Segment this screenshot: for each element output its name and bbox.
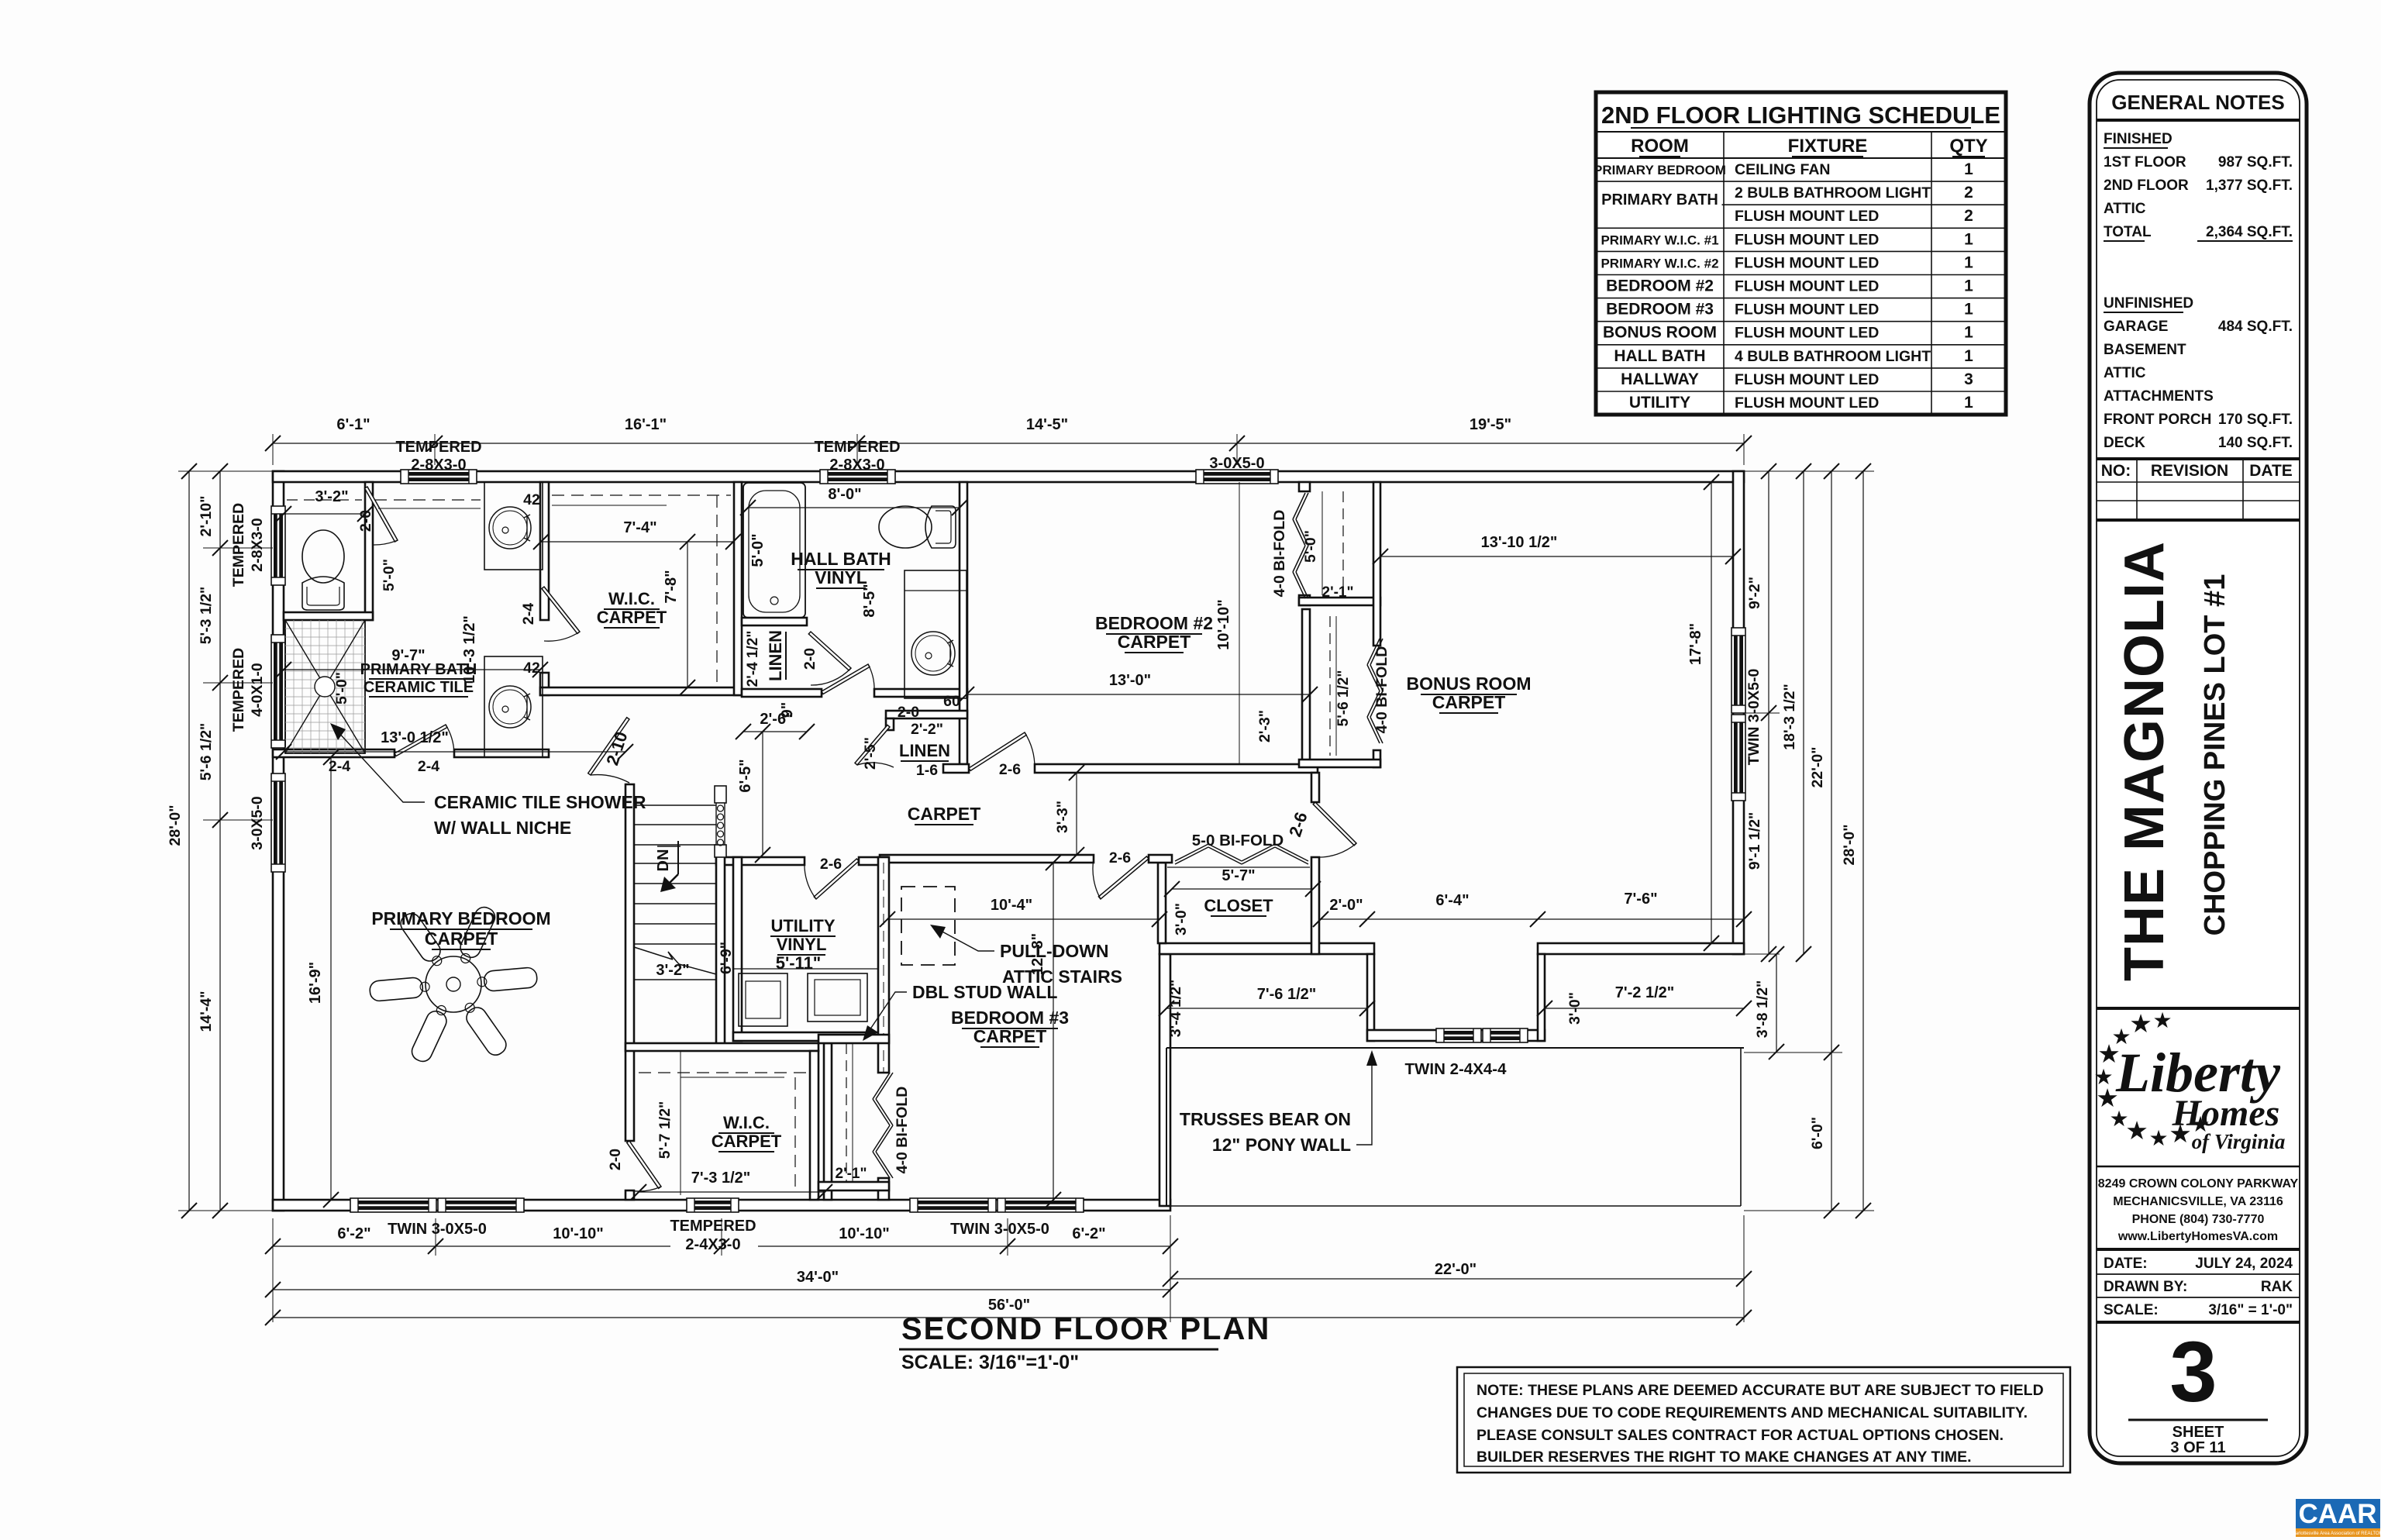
svg-text:TEMPERED: TEMPERED (395, 439, 481, 456)
label 6-9 utility (718, 942, 735, 974)
wall utility west (733, 857, 742, 1041)
label 7-8 wic (663, 534, 695, 695)
svg-text:LINEN: LINEN (899, 741, 950, 760)
bay lower dims 7-6half 7-2half (1159, 984, 1752, 1016)
left dimension string inner (198, 463, 273, 1218)
svg-text:5'-7 1/2": 5'-7 1/2" (656, 1101, 674, 1159)
label 8-0 hall bath (740, 486, 967, 515)
window twin 2-4x4-4 bay (1436, 1028, 1528, 1042)
svg-text:CHOPPING PINES LOT #1: CHOPPING PINES LOT #1 (2199, 574, 2231, 936)
svg-text:MECHANICSVILLE, VA 23116: MECHANICSVILLE, VA 23116 (2113, 1195, 2283, 1208)
drawn by row (2097, 1274, 2300, 1295)
closet rod closetA (1322, 491, 1343, 595)
label pull-down attic stairs (930, 925, 1122, 987)
svg-text:CEILING FAN: CEILING FAN (1735, 161, 1831, 178)
general notes unfinished list (2104, 295, 2293, 451)
label 7-3half wic2 (631, 1170, 832, 1200)
wall primary bath south (left segment) (273, 749, 395, 757)
svg-text:7'-6 1/2": 7'-6 1/2" (1257, 986, 1317, 1003)
wall exterior-top (273, 471, 1744, 482)
label 2-6 bedroom2 door (999, 761, 1021, 778)
date row (2097, 1249, 2300, 1272)
svg-text:1: 1 (1964, 301, 1973, 319)
svg-text:2-4: 2-4 (418, 758, 439, 775)
svg-text:12'-8": 12'-8" (1029, 933, 1046, 975)
svg-text:FLUSH MOUNT LED: FLUSH MOUNT LED (1735, 278, 1879, 295)
svg-text:★: ★ (2148, 1126, 2168, 1150)
liberty homes logo (2093, 1008, 2300, 1153)
window label 3-0x5-0 left (249, 796, 266, 850)
window tempered 2-8x3-0 top-middle (820, 470, 895, 484)
svg-text:2'-0": 2'-0" (1329, 897, 1363, 914)
label 5-0 wc (381, 559, 398, 591)
wall exterior-right bonus room (1733, 471, 1744, 954)
window label tempered 4-0x1-0 left (230, 648, 266, 732)
door 2-4 primary bath to bedroom (395, 725, 454, 756)
svg-text:CARPET: CARPET (712, 1132, 782, 1151)
stair railing (715, 786, 726, 857)
wall bonus-room south (left of bay) (1159, 943, 1374, 954)
svg-text:56'-0": 56'-0" (988, 1297, 1030, 1314)
svg-text:4-0X1-0: 4-0X1-0 (249, 663, 266, 717)
label 2-6 utility door (820, 856, 842, 873)
bay dimension string 2-0 6-4 7-6 (1313, 891, 1752, 927)
wall wic2 north (625, 1043, 818, 1051)
svg-text:2-0: 2-0 (607, 1149, 624, 1170)
wall exterior-bottom main (273, 1200, 1170, 1211)
wall W.C. room south (284, 612, 373, 620)
svg-text:6'-4": 6'-4" (1435, 892, 1469, 909)
svg-text:3/16" = 1'-0": 3/16" = 1'-0" (2208, 1302, 2293, 1318)
label ceramic tile shower note (330, 723, 646, 838)
vanity 42 primary bath lower (484, 656, 543, 757)
svg-text:PHONE (804) 730-7770: PHONE (804) 730-7770 (2132, 1213, 2265, 1226)
svg-text:7'-6": 7'-6" (1624, 891, 1657, 908)
svg-text:2-8X3-0: 2-8X3-0 (411, 456, 466, 474)
svg-text:3: 3 (1964, 370, 1973, 388)
bifold 4-0 closetA bedroom2 (1293, 493, 1308, 598)
svg-text:PRIMARY BATH: PRIMARY BATH (1601, 191, 1718, 208)
svg-text:60: 60 (943, 693, 960, 710)
svg-text:5-0 BI-FOLD: 5-0 BI-FOLD (1192, 832, 1284, 849)
svg-text:PULL-DOWN: PULL-DOWN (1000, 941, 1109, 961)
label 10-3half primary bath (461, 615, 478, 684)
ceiling fan primary bedroom (369, 904, 537, 1065)
svg-text:17'-8": 17'-8" (1687, 623, 1704, 665)
svg-text:of Virginia: of Virginia (2192, 1130, 2286, 1153)
shower ceramic tile primary bath (285, 620, 365, 753)
label 2-4 bath door (418, 758, 439, 775)
wall bay window sill (1367, 1030, 1545, 1041)
svg-text:7'-3 1/2": 7'-3 1/2" (691, 1170, 751, 1187)
sheet number (2128, 1325, 2268, 1456)
label 12-8 bedroom3 (1029, 855, 1061, 1208)
label 9-7 primary bath (276, 647, 548, 677)
label 2-1 bedroom3 closet (836, 1166, 867, 1182)
label 2-5 linen2 (862, 737, 879, 770)
room label linen1 (766, 630, 786, 681)
label 2-6 bedroom3 door (1109, 849, 1131, 866)
general notes finished list (2104, 131, 2293, 241)
svg-text:5'-6 1/2": 5'-6 1/2" (198, 723, 215, 781)
window 3-0x5-0 top-right (1196, 470, 1278, 484)
svg-text:FRONT PORCH: FRONT PORCH (2104, 412, 2211, 428)
wall primary bath / wic vanity wall lower (540, 673, 549, 695)
svg-text:ATTIC: ATTIC (2104, 365, 2146, 381)
svg-text:CERAMIC TILE: CERAMIC TILE (364, 679, 474, 696)
svg-text:TWIN 3-0X5-0: TWIN 3-0X5-0 (950, 1221, 1049, 1238)
svg-text:TEMPERED: TEMPERED (670, 1218, 756, 1235)
toilet hall bath (879, 506, 956, 548)
vanity 60 hall bath (905, 570, 967, 698)
svg-text:2'-2": 2'-2" (911, 721, 943, 738)
svg-text:SCALE: 3/16"=1'-0": SCALE: 3/16"=1'-0" (901, 1352, 1079, 1373)
svg-text:PLEASE CONSULT SALES CONTRACT: PLEASE CONSULT SALES CONTRACT FOR ACTUAL… (1476, 1427, 2004, 1444)
wall closetB south (1299, 760, 1380, 767)
svg-text:2-6: 2-6 (999, 761, 1021, 778)
svg-text:10'-10": 10'-10" (839, 1225, 889, 1242)
door 2-6 bedroom2 (969, 732, 1035, 770)
label 1-6 linen2 (916, 762, 938, 779)
svg-text:PRIMARY W.I.C. #2: PRIMARY W.I.C. #2 (1601, 256, 1718, 270)
svg-text:DBL STUD WALL: DBL STUD WALL (912, 982, 1057, 1002)
svg-text:4 BULB BATHROOM LIGHT: 4 BULB BATHROOM LIGHT (1735, 348, 1931, 365)
wall bedroom3 north (880, 855, 1094, 863)
svg-text:2-0: 2-0 (898, 704, 919, 721)
room label wic2 (712, 1113, 782, 1152)
label 2-1 closetA (1322, 584, 1354, 601)
label 4-0 bifold closetA (1271, 510, 1288, 598)
window twin 3-0x5-0 bottom primary bedroom (350, 1198, 524, 1212)
top dimension string (265, 416, 1752, 465)
svg-text:ATTIC: ATTIC (2104, 201, 2146, 217)
label 10-10 bedroom2 (1215, 599, 1232, 649)
2nd floor lighting schedule table (1594, 92, 2006, 415)
wall utility north west segment (716, 857, 805, 865)
closet rod wc dashed (287, 499, 362, 501)
room label primary bedroom (371, 908, 550, 949)
svg-text:4-0 BI-FOLD: 4-0 BI-FOLD (1373, 646, 1390, 734)
wall utility north east stub (859, 857, 887, 865)
svg-text:2-6: 2-6 (1109, 849, 1131, 866)
svg-text:DATE:: DATE: (2104, 1256, 2148, 1272)
svg-text:22'-0": 22'-0" (1435, 1261, 1476, 1278)
room label bedroom3 (951, 1008, 1069, 1047)
door 2-0 hall bath (822, 664, 874, 694)
label 42 lower vanity (523, 660, 540, 677)
svg-text:4-0 BI-FOLD: 4-0 BI-FOLD (1271, 510, 1288, 598)
svg-text:★: ★ (2125, 1116, 2148, 1145)
svg-text:2: 2 (1964, 207, 1973, 225)
svg-text:2ND FLOOR: 2ND FLOOR (2104, 177, 2189, 194)
closet rod wic2 (639, 1051, 810, 1195)
window label twin 3-0x5-0 bottom-right (950, 1221, 1049, 1238)
toilet wc (302, 530, 344, 610)
project name the magnolia (2114, 541, 2176, 981)
svg-text:6'-1": 6'-1" (336, 416, 370, 433)
svg-text:3'-8 1/2": 3'-8 1/2" (1754, 980, 1771, 1039)
svg-text:W.I.C.: W.I.C. (723, 1113, 770, 1132)
room label bonus room (1407, 674, 1532, 713)
svg-text:2-8X3-0: 2-8X3-0 (829, 456, 884, 474)
wall dbl-stud utility/bedroom3 upper (878, 857, 889, 1073)
address block (2097, 1166, 2300, 1243)
bottom dimension 56-0 (265, 1218, 1752, 1325)
label 2-3 closet stub (1256, 710, 1273, 742)
svg-text:Homes: Homes (2172, 1093, 2280, 1134)
svg-text:DECK: DECK (2104, 435, 2145, 451)
bottom dimension 22-0 (1163, 1215, 1752, 1322)
door 2-4 wic1 (542, 587, 580, 641)
room label hall bath (791, 549, 891, 588)
svg-text:6'-2": 6'-2" (1072, 1225, 1105, 1242)
caar logo (2290, 1499, 2381, 1537)
general notes header (2097, 91, 2300, 120)
svg-text:7'-8": 7'-8" (663, 570, 680, 603)
svg-text:2-4: 2-4 (329, 758, 350, 775)
svg-text:3-0X5-0: 3-0X5-0 (1209, 455, 1264, 472)
svg-text:TRUSSES BEAR ON: TRUSSES BEAR ON (1180, 1109, 1351, 1129)
label trusses bear on pony wall (1180, 1050, 1377, 1155)
svg-text:13'-0 1/2": 13'-0 1/2" (381, 729, 449, 746)
label 2-2 linen2 (911, 721, 943, 738)
svg-text:FLUSH MOUNT LED: FLUSH MOUNT LED (1735, 371, 1879, 388)
wall dbl-stud below closet opening (878, 1178, 889, 1200)
svg-text:2: 2 (1964, 184, 1973, 202)
label 4-0 bifold closetB (1373, 646, 1390, 734)
svg-text:TEMPERED: TEMPERED (814, 439, 900, 456)
svg-text:8'-0": 8'-0" (828, 486, 861, 503)
door 2-6 bonus room (1313, 802, 1356, 857)
label 5-0 closetA (1302, 530, 1319, 563)
svg-text:ATTACHMENTS: ATTACHMENTS (2104, 388, 2214, 405)
svg-text:5'-0": 5'-0" (381, 559, 398, 591)
wall hall-bath south west stub (742, 689, 822, 697)
svg-text:14'-4": 14'-4" (198, 991, 215, 1032)
wall bay window left jog (1367, 954, 1374, 1041)
label 16-9 primary bedroom (307, 749, 339, 1208)
svg-text:TEMPERED: TEMPERED (230, 648, 247, 732)
svg-text:TWIN 2-4X4-4: TWIN 2-4X4-4 (1405, 1060, 1508, 1078)
wall W.C. room east (365, 482, 373, 620)
wall stair west / primary bedroom east (625, 784, 634, 1141)
svg-text:HALLWAY: HALLWAY (1621, 370, 1699, 388)
window label tempered 2-8x3-0 top-left (395, 439, 481, 474)
window tempered 2-4x3-0 bottom wic2 (687, 1198, 739, 1212)
svg-text:★: ★ (2152, 1008, 2172, 1032)
svg-text:42: 42 (523, 491, 540, 508)
svg-text:6'-0": 6'-0" (1809, 1117, 1826, 1149)
svg-text:2'-1": 2'-1" (836, 1166, 867, 1182)
svg-text:9'-2": 9'-2" (1746, 577, 1763, 609)
svg-text:16'-9": 16'-9" (307, 962, 324, 1004)
label 3-0 hall closet (1173, 903, 1190, 935)
label 13-0 bedroom2 (959, 672, 1318, 702)
svg-text:GARAGE: GARAGE (2104, 319, 2168, 335)
window label tempered 2-4x3-0 bottom (670, 1218, 756, 1253)
svg-text:16'-1": 16'-1" (625, 416, 667, 433)
wall stair west below wic2 door (625, 1190, 634, 1200)
svg-text:6'-9": 6'-9" (718, 942, 735, 974)
wall hall closet west (1158, 863, 1166, 943)
svg-text:TWIN 3-0X5-0: TWIN 3-0X5-0 (388, 1221, 487, 1238)
svg-text:HALL BATH: HALL BATH (791, 549, 891, 569)
wall bonus-room south (right of bay) (1538, 943, 1744, 954)
svg-text:7'-4": 7'-4" (623, 519, 656, 536)
svg-text:2,364 SQ.FT.: 2,364 SQ.FT. (2206, 224, 2293, 240)
svg-text:★: ★ (2129, 1009, 2152, 1038)
svg-text:CHANGES DUE TO CODE REQUIREMEN: CHANGES DUE TO CODE REQUIREMENTS AND MEC… (1476, 1404, 2028, 1421)
label 5-0 tub (749, 533, 767, 567)
svg-text:UNFINISHED: UNFINISHED (2104, 295, 2193, 312)
wall closetA west jamb bottom (1299, 595, 1310, 605)
wall primary bath / wic vanity wall upper (540, 482, 549, 620)
svg-text:CAAR: CAAR (2298, 1499, 2376, 1529)
svg-text:3'-4 1/2": 3'-4 1/2" (1167, 980, 1184, 1038)
right dimension 22-0 and 6-0 (1744, 463, 1842, 1218)
svg-text:BASEMENT: BASEMENT (2104, 342, 2186, 358)
room label bedroom2 (1095, 613, 1213, 653)
svg-text:CARPET: CARPET (1118, 632, 1191, 652)
label 3-2 stairs (634, 959, 716, 979)
window twin 3-0x5-0 bottom bedroom3 (910, 1198, 1084, 1212)
wall primary bath south (right segment) (454, 749, 549, 757)
svg-text:1: 1 (1964, 160, 1973, 178)
label 9in wall (779, 702, 796, 718)
svg-text:PRIMARY BEDROOM: PRIMARY BEDROOM (371, 908, 550, 928)
label 3-3 hallway (1054, 765, 1084, 863)
svg-text:8249 CROWN COLONY PARKWAY: 8249 CROWN COLONY PARKWAY (2098, 1177, 2299, 1190)
svg-text:BONUS ROOM: BONUS ROOM (1407, 674, 1532, 694)
wall linen2 north (886, 711, 967, 718)
label 2-0 wc door (357, 510, 374, 532)
svg-text:BEDROOM #3: BEDROOM #3 (951, 1008, 1069, 1028)
wall bonus west stub above door (1311, 773, 1319, 802)
svg-text:NO:: NO: (2101, 462, 2131, 480)
svg-text:42: 42 (523, 660, 540, 677)
svg-text:13'-0": 13'-0" (1109, 672, 1151, 689)
svg-text:5'-0": 5'-0" (1302, 530, 1319, 563)
svg-text:1: 1 (1964, 324, 1973, 342)
svg-text:2-8X3-0: 2-8X3-0 (249, 518, 266, 572)
svg-text:JULY 24, 2024: JULY 24, 2024 (2195, 1256, 2293, 1272)
wall closetA/closetB divider (1299, 598, 1380, 605)
svg-text:TOTAL: TOTAL (2104, 224, 2152, 240)
svg-text:W/ WALL NICHE: W/ WALL NICHE (434, 818, 571, 838)
svg-text:3-0X5-0: 3-0X5-0 (249, 796, 266, 850)
svg-text:SHEET: SHEET (2173, 1424, 2224, 1441)
room label utility (770, 916, 836, 973)
label twin 2-4x4-4 (1405, 1060, 1508, 1078)
svg-text:18'-3 1/2": 18'-3 1/2" (1781, 684, 1798, 749)
room label wic1 (597, 589, 667, 628)
room label hallway carpet (908, 804, 981, 825)
door 2-6 utility (805, 859, 859, 899)
svg-text:DRAWN BY:: DRAWN BY: (2104, 1279, 2187, 1295)
svg-text:5'-7": 5'-7" (1222, 867, 1255, 884)
revision table (2097, 459, 2300, 520)
label 17-8 bonus (1687, 474, 1719, 951)
svg-text:FIXTURE: FIXTURE (1788, 136, 1868, 157)
svg-text:CARPET: CARPET (597, 608, 667, 627)
svg-text:4-0 BI-FOLD: 4-0 BI-FOLD (894, 1087, 911, 1174)
svg-text:1: 1 (1964, 277, 1973, 295)
svg-text:1ST FLOOR: 1ST FLOOR (2104, 154, 2186, 171)
window label twin 3-0x5-0 bottom-left (388, 1221, 487, 1238)
svg-text:2'-1": 2'-1" (1322, 584, 1354, 601)
svg-text:RAK: RAK (2261, 1279, 2293, 1295)
svg-text:2 BULB BATHROOM LIGHT: 2 BULB BATHROOM LIGHT (1735, 184, 1931, 202)
svg-text:PRIMARY BEDROOM: PRIMARY BEDROOM (1594, 163, 1726, 177)
window label tempered 2-8x3-0 left (230, 503, 266, 587)
svg-text:8'-5": 8'-5" (861, 584, 878, 617)
svg-text:6'-5": 6'-5" (737, 759, 754, 792)
svg-text:1-6: 1-6 (916, 762, 938, 779)
label 13-0half primary bedroom (276, 729, 633, 760)
window tempered 2-8x3-0 left wall wc (271, 506, 285, 585)
svg-text:1: 1 (1964, 347, 1973, 365)
dryer utility (808, 973, 867, 1021)
label 3-2 wc (276, 488, 373, 522)
svg-text:REVISION: REVISION (2151, 462, 2228, 480)
washer utility (739, 973, 787, 1026)
label 5-6half closetB (1335, 670, 1352, 727)
shelf lines primary bath (374, 500, 481, 508)
window twin 3-0x5-0 right wall bonus (1731, 628, 1745, 801)
wall closets east / bonus west upper (1373, 482, 1380, 646)
label 5-0 bifold hall closet (1192, 832, 1284, 849)
svg-text:DATE: DATE (2249, 462, 2293, 480)
bifold 4-0 closetB bonus (1367, 639, 1383, 743)
bottom dimension string row A (265, 1218, 1178, 1256)
svg-text:1: 1 (1964, 394, 1973, 412)
svg-text:10'-10": 10'-10" (1215, 599, 1232, 649)
wall hall closet north-west jamb (1149, 855, 1172, 863)
svg-text:VINYL: VINYL (777, 935, 827, 954)
svg-text:CLOSET: CLOSET (1204, 896, 1273, 915)
wall closetB west (1302, 609, 1310, 764)
label 2-0 wic2 door (607, 1149, 624, 1170)
room label primary bath (360, 661, 477, 697)
svg-text:FLUSH MOUNT LED: FLUSH MOUNT LED (1735, 325, 1879, 342)
svg-text:3'-0": 3'-0" (1566, 992, 1583, 1025)
dim extension line window center bedroom2 (1239, 482, 1240, 763)
label 60 hall vanity (943, 693, 960, 710)
wall bedroom3 closet west (824, 1043, 832, 1200)
svg-text:CARPET: CARPET (1432, 692, 1506, 712)
svg-text:PRIMARY W.I.C. #1: PRIMARY W.I.C. #1 (1601, 233, 1718, 247)
wall bay window right jog (1538, 954, 1545, 1041)
label 2-0 linen1 door (801, 648, 818, 670)
bay side dims 3-4half 3-0 3-8half (1167, 946, 1784, 1059)
svg-text:DN: DN (655, 849, 672, 872)
wall linen1 north (742, 618, 807, 625)
svg-text:FLUSH MOUNT LED: FLUSH MOUNT LED (1735, 254, 1879, 271)
label 5-7 hall closet (1164, 867, 1321, 897)
svg-text:www.LibertyHomesVA.com: www.LibertyHomesVA.com (2117, 1230, 2278, 1243)
note box (1457, 1367, 2070, 1473)
label 5-0 shower (333, 672, 350, 705)
svg-text:9'-7": 9'-7" (391, 647, 425, 664)
wall bedroom3 closet north (818, 1035, 889, 1043)
svg-text:3: 3 (2169, 1325, 2217, 1420)
bifold 4-0 bedroom3 closet (873, 1073, 893, 1178)
left dimension overall 28-0 (167, 463, 203, 1218)
svg-text:NOTE: THESE PLANS ARE DEEMED A: NOTE: THESE PLANS ARE DEEMED ACCURATE BU… (1476, 1382, 2044, 1399)
svg-text:13'-10 1/2": 13'-10 1/2" (1481, 534, 1558, 551)
svg-text:5'-0": 5'-0" (749, 533, 767, 567)
label 2-10 bedroom door (602, 729, 631, 768)
